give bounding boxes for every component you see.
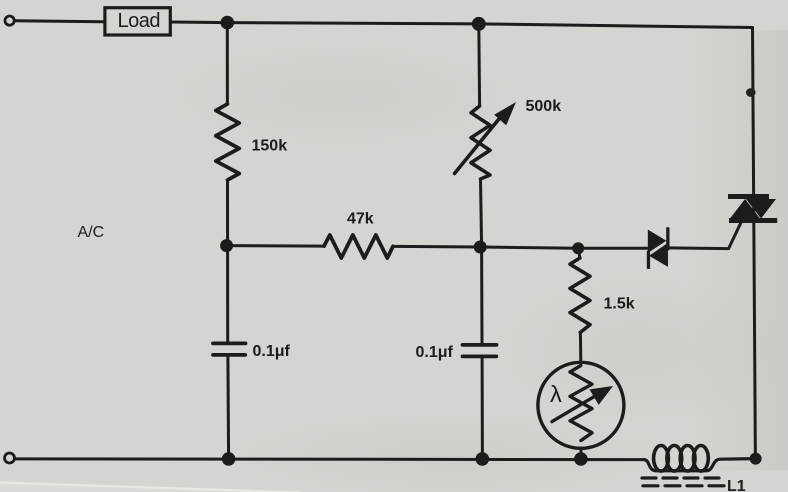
wire VR1 to C2 [481, 179, 483, 343]
terminal bottom-left [5, 453, 15, 463]
photocell arrow shaft [552, 394, 598, 421]
wire Load to top-right corner [172, 22, 753, 28]
resistor R2 47k [324, 235, 393, 258]
wire middle node A to 47k [227, 244, 324, 248]
node A bottom (junction dot) [222, 452, 236, 466]
resistor R1 150k [216, 104, 239, 180]
potentiometer VR1 arrow [455, 114, 504, 174]
node A top (junction dot) [221, 16, 235, 30]
svg-text:0.1μf: 0.1μf [416, 344, 454, 361]
terminal top-left [5, 16, 14, 25]
triac Q1 [728, 194, 777, 223]
node C mid (junction dot) [572, 242, 584, 254]
inductor L1 baseline [644, 459, 756, 471]
wire middle column top (node B to VR1) [477, 24, 481, 106]
wire R3 to photocell [579, 332, 582, 362]
inductor L1 loop 3 [680, 446, 695, 472]
potentiometer VR1 arrowhead [494, 102, 516, 125]
node B mid (junction dot) [474, 241, 487, 254]
svg-text:L1: L1 [727, 478, 746, 492]
svg-text:47k: 47k [347, 211, 374, 228]
page corner light wedge bottom-left [0, 482, 300, 492]
photocell body circle [538, 362, 624, 448]
photocell zigzag [570, 366, 592, 441]
node B top (junction dot) [472, 17, 486, 31]
wire C1 to bottom rail [226, 357, 230, 459]
svg-text:0.1μf: 0.1μf [253, 343, 291, 360]
svg-text:150k: 150k [252, 138, 288, 155]
inductor L1 loop 4 [694, 446, 709, 472]
wire 47k to diac [393, 246, 648, 248]
wire node C to R3 [578, 248, 580, 258]
potentiometer VR1 500k zigzag [471, 106, 490, 179]
svg-text:1.5k: 1.5k [604, 296, 635, 313]
wire photocell to bottom rail [580, 448, 583, 459]
wire R1 to C1 [226, 180, 229, 342]
resistor R3 1.5k [570, 258, 590, 332]
inductor L1 loop 2 [667, 446, 682, 472]
diac D1 [647, 227, 670, 269]
inductor L1 loop 1 [654, 446, 669, 472]
svg-text:500k: 500k [526, 98, 562, 115]
photocell arrowhead [590, 386, 614, 405]
inductor core dashed line 1 [642, 476, 719, 479]
capacitor C2 0.1uf [463, 345, 497, 357]
inductor core dashed line 2 [643, 484, 724, 487]
wire C2 to bottom rail [481, 358, 484, 459]
wire bottom rail left of L1 [15, 457, 645, 461]
capacitor C1 0.1uf [213, 343, 246, 355]
node B bottom (junction dot) [476, 452, 490, 466]
load box [105, 8, 170, 35]
svg-text:λ: λ [550, 381, 562, 407]
svg-text:A/C: A/C [78, 224, 105, 241]
wire diac to triac gate [668, 223, 741, 249]
node A mid (junction dot) [220, 239, 233, 252]
wire terminal to Load [14, 21, 103, 22]
node D bottom-right corner (junction dot) [750, 453, 762, 465]
wire left column top (node A to R1) [226, 23, 229, 104]
smudge artifact on right rail [746, 88, 756, 97]
wire right vertical rail [753, 28, 756, 459]
svg-text:Load: Load [118, 10, 161, 32]
node C bottom (junction dot) [574, 452, 588, 466]
